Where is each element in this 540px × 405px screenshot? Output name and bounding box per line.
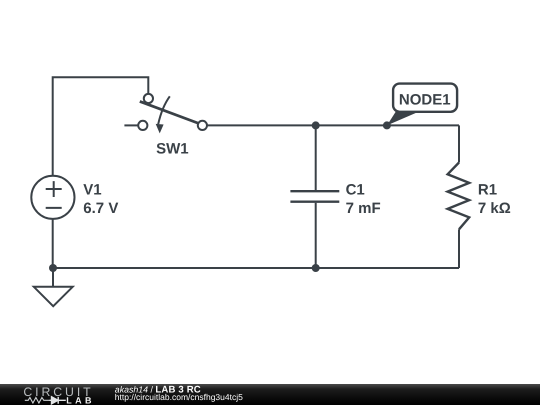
wire resistor bottom (458, 229, 460, 268)
wire V1 bottom to ground node (52, 220, 54, 269)
switch SW1 blade (140, 101, 199, 123)
switch SW1 right terminal (198, 121, 207, 130)
svg-text:SW1: SW1 (156, 141, 189, 158)
switch SW1 left (open) terminal (138, 121, 147, 130)
wire capacitor top (315, 125, 317, 190)
svg-text:7 kΩ: 7 kΩ (478, 200, 511, 217)
wire switch left stub (124, 124, 138, 126)
junction at ground node (49, 264, 57, 272)
svg-text:NODE1: NODE1 (399, 92, 451, 109)
logo resistor zigzag (25, 398, 50, 404)
voltage source V1 (31, 176, 74, 219)
CircuitLab logo (23, 385, 95, 405)
svg-text:7 mF: 7 mF (346, 200, 381, 217)
svg-text:LAB: LAB (66, 395, 95, 405)
wire resistor top (458, 125, 460, 162)
svg-text:6.7 V: 6.7 V (83, 200, 118, 217)
NODE1 callout tail (387, 111, 422, 126)
svg-text:R1: R1 (478, 181, 497, 198)
wire bottom rail (53, 267, 459, 269)
NODE1 callout bubble (393, 84, 457, 112)
wire top rail switch to resistor (207, 124, 459, 126)
svg-text:C1: C1 (346, 181, 365, 198)
svg-text:V1: V1 (83, 181, 101, 198)
wire capacitor bottom (315, 203, 317, 268)
footer text (115, 384, 243, 402)
labels (83, 92, 510, 217)
svg-text:http://circuitlab.com/cnsfhg3u: http://circuitlab.com/cnsfhg3u4tcj5 (115, 392, 243, 402)
capacitor C1 plates (290, 191, 339, 202)
junction C1 top / top rail (312, 121, 320, 129)
switch SW1 actuation arrow arc (158, 96, 170, 124)
ground symbol (34, 268, 73, 306)
wire top-left: V1 top to switch (53, 77, 149, 175)
switch SW1 top terminal (144, 94, 153, 103)
logo diode (50, 397, 66, 404)
junction C1 bottom / ground rail (312, 264, 320, 272)
node NODE1 junction (383, 121, 391, 129)
switch SW1 arrowhead (156, 124, 164, 133)
resistor R1 zigzag (448, 163, 470, 230)
